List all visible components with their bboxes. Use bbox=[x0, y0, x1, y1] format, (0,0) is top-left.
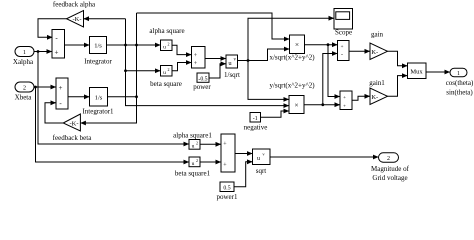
svg-text:beta square: beta square bbox=[150, 80, 182, 88]
svg-text:2: 2 bbox=[196, 158, 198, 163]
svg-text:sqrt: sqrt bbox=[256, 167, 267, 175]
svg-text:Scope: Scope bbox=[335, 28, 352, 36]
svg-text:u: u bbox=[163, 70, 166, 76]
svg-text:K-: K- bbox=[371, 94, 378, 101]
svg-text:-K-: -K- bbox=[72, 16, 81, 23]
svg-text:+: + bbox=[59, 84, 63, 92]
svg-text:2: 2 bbox=[168, 41, 170, 46]
svg-text:+: + bbox=[343, 104, 346, 109]
svg-text:gain: gain bbox=[371, 31, 384, 39]
svg-text:feedback alpha: feedback alpha bbox=[53, 1, 96, 9]
svg-text:u: u bbox=[192, 161, 195, 167]
svg-text:1/sqrt: 1/sqrt bbox=[224, 71, 240, 79]
svg-text:-K-: -K- bbox=[69, 120, 78, 127]
svg-text:negative: negative bbox=[244, 124, 268, 132]
svg-text:+: + bbox=[343, 96, 346, 101]
svg-text:alpha square: alpha square bbox=[149, 27, 184, 35]
svg-text:Xbeta: Xbeta bbox=[15, 94, 33, 102]
svg-text:cos(theta): cos(theta) bbox=[446, 79, 474, 87]
svg-text:2: 2 bbox=[387, 156, 390, 162]
svg-text:1: 1 bbox=[23, 50, 26, 56]
svg-text:Mux: Mux bbox=[410, 68, 423, 75]
svg-text:gain1: gain1 bbox=[369, 79, 385, 87]
svg-text:beta square1: beta square1 bbox=[175, 170, 211, 178]
svg-text:-0.5: -0.5 bbox=[198, 76, 207, 82]
svg-text:1/s: 1/s bbox=[94, 43, 102, 50]
svg-text:2: 2 bbox=[168, 67, 170, 72]
svg-text:+: + bbox=[55, 49, 59, 57]
svg-text:y/sqrt(x^2+y^2): y/sqrt(x^2+y^2) bbox=[269, 82, 315, 90]
svg-text:x/sqrt(x^2+y^2): x/sqrt(x^2+y^2) bbox=[269, 54, 315, 62]
svg-text:0.5: 0.5 bbox=[223, 186, 230, 192]
svg-text:+: + bbox=[341, 45, 344, 50]
svg-text:2: 2 bbox=[23, 86, 26, 92]
svg-text:Xalpha: Xalpha bbox=[13, 58, 34, 66]
svg-text:K-: K- bbox=[371, 49, 378, 56]
svg-text:power: power bbox=[193, 83, 211, 91]
svg-text:alpha square1: alpha square1 bbox=[173, 132, 212, 140]
svg-text:Integrator: Integrator bbox=[84, 58, 112, 66]
svg-text:×: × bbox=[294, 100, 298, 109]
svg-text:1/s: 1/s bbox=[95, 95, 103, 102]
svg-text:u: u bbox=[163, 44, 166, 50]
svg-text:Integrator1: Integrator1 bbox=[82, 108, 114, 116]
svg-text:2: 2 bbox=[196, 140, 198, 145]
svg-text:-1: -1 bbox=[253, 116, 258, 122]
svg-text:power1: power1 bbox=[217, 193, 238, 201]
svg-text:sin(theta): sin(theta) bbox=[446, 89, 473, 97]
svg-text:1: 1 bbox=[457, 71, 460, 77]
svg-text:feedback beta: feedback beta bbox=[53, 134, 93, 142]
svg-text:Grid voltage: Grid voltage bbox=[372, 174, 407, 182]
svg-text:u: u bbox=[192, 143, 195, 149]
svg-text:-: - bbox=[341, 53, 343, 59]
svg-text:u: u bbox=[257, 156, 260, 162]
svg-text:×: × bbox=[295, 40, 299, 49]
svg-text:Magnitude of: Magnitude of bbox=[371, 165, 410, 173]
